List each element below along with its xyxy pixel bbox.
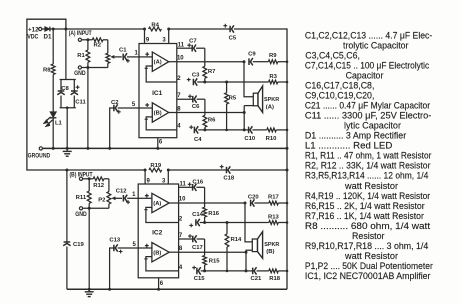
svg-text:C2: C2 [111,100,119,106]
capacitor C15 [192,266,247,283]
capacitor C9 [248,51,268,65]
svg-text:R17: R17 [268,194,280,200]
ground symbol A [63,148,72,156]
parts list text column [305,30,434,282]
wire pin 9 IC1 [145,29,150,44]
wire ground bus B [67,288,287,291]
op-amp IC1 [139,44,177,138]
resistor R18 [269,269,287,282]
svg-text:R8: R8 [43,68,51,74]
capacitor C19 [63,170,84,289]
resistor R1 [77,40,90,68]
svg-text:R3: R3 [269,74,277,80]
capacitor C20 [248,194,269,206]
svg-text:C20: C20 [248,194,260,200]
resistor R6 [203,99,216,130]
wire +12V feed loop to channel B [27,19,67,170]
capacitor C12 [116,189,138,205]
svg-text:(B): (B) [154,111,162,117]
op-amp IC1 section B [145,103,177,122]
svg-text:GND: GND [74,71,86,77]
op-amp IC2 section B [145,243,179,262]
svg-text:C19: C19 [73,242,85,248]
svg-text:C10: C10 [244,136,256,142]
svg-text:C13: C13 [109,238,121,244]
svg-text:P2: P2 [98,198,106,204]
svg-text:C21: C21 [250,276,262,282]
resistor R11 [76,179,91,209]
svg-text:6: 6 [159,140,163,146]
pin 5 wire IC2-B input [133,242,152,248]
svg-text:R14: R14 [230,237,242,243]
wire feedback IC1-B pin 4 [145,117,182,130]
capacitor C14 [189,212,268,227]
resistor R10 [266,128,287,142]
svg-text:(A): (A) [154,60,162,66]
ground symbol B [85,289,94,296]
resistor R9 [268,53,287,64]
svg-text:7: 7 [177,93,181,99]
svg-text:C9: C9 [248,51,256,57]
resistor R16 [203,187,220,222]
svg-text:C4: C4 [194,137,202,143]
svg-text:R18: R18 [269,276,281,282]
svg-text:(A): (A) [153,201,161,207]
wire output pin 10 IC2 [179,197,247,205]
capacitor C11 [60,80,87,149]
svg-text:GND: GND [75,212,87,218]
resistor R19 [149,163,162,172]
svg-text:C17: C17 [192,245,204,251]
(A) INPUT terminal [69,31,93,41]
svg-text:7: 7 [179,233,183,239]
wire output pin 10 IC1 [177,55,246,63]
capacitor C10 [244,126,267,142]
wire ground bus A [28,147,287,160]
svg-text:3: 3 [162,37,166,43]
resistor R15 [203,239,221,271]
svg-text:5: 5 [133,242,137,248]
svg-text:C11: C11 [75,100,86,106]
svg-text:4: 4 [179,265,183,271]
svg-text:(A): (A) [266,104,274,110]
capacitor C6 [177,93,205,110]
resistor R7 [203,48,216,82]
svg-text:C16: C16 [192,179,204,185]
wire feedback IC2-B pin 4 [144,257,183,271]
svg-text:C5: C5 [229,36,237,42]
resistor R17 [268,194,287,205]
svg-text:L1: L1 [55,120,63,126]
svg-text:11: 11 [178,42,185,48]
capacitor C3 [187,73,269,86]
capacitor C2 [110,100,139,149]
capacitor C7 [177,38,205,52]
wire +12V to C8/C11 [65,29,67,80]
wire output pin 8 IC2 [179,246,248,254]
GND terminal A [74,66,108,148]
svg-text:8: 8 [179,246,183,252]
wire pin 6 IC1 [158,138,163,149]
GND terminal B [75,207,109,290]
speaker SPKR (B) [245,203,280,271]
svg-text:5: 5 [132,102,136,108]
svg-text:6: 6 [160,281,164,287]
svg-text:R16: R16 [208,211,220,217]
svg-text:R6: R6 [208,118,216,124]
svg-text:R13: R13 [268,214,280,220]
svg-text:C15: C15 [194,276,206,282]
svg-text:(B): (B) [266,249,274,255]
wire +12V rail B [65,169,226,172]
resistor R2 [92,38,108,49]
resistor R3 [269,74,288,84]
resistor R8 [43,29,55,75]
wire +12V rail A [52,28,230,31]
resistor R4 [149,22,162,31]
wire pin 6 IC2 [159,278,164,289]
potentiometer P1 [106,40,122,68]
svg-text:R19: R19 [150,163,162,169]
op-amp IC2 [138,184,178,278]
capacitor C17 [179,233,205,251]
svg-text:C7: C7 [189,38,197,44]
capacitor C18 [220,165,287,182]
svg-text:+12: +12 [28,28,39,34]
svg-text:9: 9 [146,37,150,43]
wire pin 3 IC2 [162,170,168,184]
svg-text:1: 1 [132,192,136,198]
capacitor C4 [189,125,245,143]
svg-text:R1: R1 [77,53,85,59]
svg-text:R7: R7 [208,69,216,75]
svg-text:R4: R4 [151,22,159,28]
svg-text:(A) INPUT: (A) INPUT [69,31,92,37]
svg-text:D1: D1 [44,33,52,40]
svg-text:(B): (B) [153,250,161,256]
svg-text:4: 4 [177,124,181,130]
wire feedback IC2-A pin 2 [144,207,183,222]
diode D1 [44,27,54,41]
svg-text:R11: R11 [76,195,87,201]
svg-text:R10: R10 [266,136,278,142]
svg-text:C8: C8 [61,86,69,92]
svg-text:10: 10 [179,197,186,203]
(B) INPUT terminal [70,172,94,180]
svg-text:GROUND: GROUND [28,153,51,159]
op-amp IC2 section A [138,193,178,212]
pin 5 wire IC1-B input [132,102,152,108]
speaker SPKR (A) [244,62,280,130]
op-amp IC1 section A [139,52,177,71]
svg-text:C12: C12 [116,189,128,195]
capacitor C1 [119,48,139,63]
capacitor C8 [57,80,76,108]
svg-text:IC1: IC1 [152,90,163,97]
svg-text:IC2: IC2 [152,230,163,237]
svg-text:SPKR: SPKR [264,97,280,103]
svg-text:R15: R15 [209,258,221,264]
wire output pin 8 IC1 [177,107,246,114]
svg-text:C1: C1 [119,48,127,54]
svg-text:2: 2 [177,76,181,82]
svg-text:C14: C14 [192,212,204,218]
resistor R14 [225,223,242,271]
svg-text:C6: C6 [192,104,200,110]
svg-text:R2: R2 [94,42,102,48]
svg-text:10: 10 [177,55,184,61]
capacitor C16 [179,179,205,191]
svg-text:11: 11 [180,182,187,188]
svg-text:8: 8 [177,107,181,113]
svg-text:VDC: VDC [27,34,39,40]
wire pin 9 IC2 [145,170,150,184]
capacitor C5 [223,24,287,42]
resistor R5 [225,82,237,130]
svg-text:C3: C3 [192,73,200,79]
resistor R13 [268,214,287,224]
+12 VDC terminal [27,27,44,40]
capacitor C21 [246,267,269,282]
potentiometer P2 [98,179,122,209]
svg-text:1: 1 [135,50,139,56]
svg-text:SPKR: SPKR [264,242,280,248]
svg-text:2: 2 [179,216,183,222]
svg-text:R12: R12 [93,183,105,189]
svg-text:R9: R9 [269,53,277,59]
wire pin 3 IC1 [162,29,168,44]
wire right ground rail [286,28,289,289]
svg-text:R5: R5 [229,96,237,102]
wire feedback IC1-A pin 2 [145,66,182,82]
svg-text:IC1, IC2 NEC70001AB Amplifie: IC1, IC2 NEC70001AB Amplifier [305,271,431,282]
svg-text:C18: C18 [223,175,235,181]
LED L1 [43,75,63,149]
capacitor C13 [109,238,138,290]
resistor R12 [93,177,109,189]
